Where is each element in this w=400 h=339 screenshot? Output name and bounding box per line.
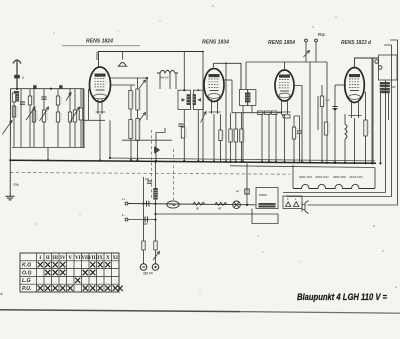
resistor R9 100k (129, 91, 132, 110)
wire v x241 (241, 113, 243, 129)
wire V1 anode right (110, 84, 135, 86)
electrolytic C11 (245, 189, 249, 194)
resistor coil L2 (56, 96, 59, 105)
wire v x203 (202, 52, 204, 162)
dashed vertical gang (173, 149, 175, 200)
wire v x236 (235, 113, 237, 129)
wire V4 grid (335, 84, 346, 86)
variable capacitor arrow C-tune (3, 121, 13, 135)
resistor R17 (240, 129, 243, 142)
wire v x246 (245, 62, 247, 89)
capacitor IF1 C6 (178, 123, 183, 125)
dashed gang vertical 2 (151, 130, 153, 199)
resistor IF1 R13 (181, 127, 184, 138)
wire v x70 (69, 89, 71, 148)
wire V1 grid right (110, 77, 147, 79)
resistor left R2 (12, 106, 15, 117)
junction x226 (225, 62, 227, 64)
IF transformer 2 primary loop (240, 90, 248, 106)
junction v2a (213, 160, 215, 162)
bus companion wire (110, 158, 375, 161)
wire V2 grid right (224, 79, 232, 81)
terminal L+ (125, 202, 128, 205)
wire drop plus (155, 162, 157, 264)
variable arrow p5 (139, 113, 146, 122)
svg-text:K.G: K.G (22, 263, 31, 269)
svg-text:MW LW: MW LW (160, 77, 169, 80)
variable arrow p4 (139, 80, 146, 89)
tuner box right edge (83, 89, 85, 148)
resistor R22 (292, 127, 295, 139)
svg-text:V: V (68, 256, 72, 261)
svg-text:2000Ω: 2000Ω (258, 193, 267, 197)
wire left down to ground (9, 89, 11, 196)
IF1 secondary trimmer (198, 98, 202, 102)
ground bus wire (10, 160, 376, 163)
svg-text:45: 45 (217, 207, 222, 211)
resistor R23 02M (320, 96, 323, 107)
heater chain resistor bumps (293, 184, 375, 188)
wire v x276 (275, 114, 277, 161)
wire grid row (232, 112, 281, 114)
svg-text:RENS 1854: RENS 1854 (333, 176, 347, 179)
resistor R21 (283, 115, 290, 118)
speaker terminal box (283, 196, 302, 209)
wire v x34 (33, 89, 35, 148)
speaker box (379, 55, 398, 80)
wire v x373 (372, 58, 374, 163)
resistor left R1 (12, 93, 15, 102)
resistor R12 (136, 119, 139, 141)
output transformer primary (380, 82, 390, 87)
junction v4e (364, 162, 366, 164)
tube V2 cathode legs (209, 99, 221, 114)
wire PU 2 (315, 42, 317, 62)
junction v3b (293, 161, 295, 163)
junction v1d (99, 159, 101, 161)
choke box (256, 188, 278, 209)
terminal L- (125, 218, 128, 221)
output transformer secondary (380, 88, 390, 93)
wire wrap 2 (286, 45, 392, 197)
capacitor C13 (147, 180, 152, 182)
wire v x75 (74, 89, 76, 148)
wire wrap 3 (308, 40, 398, 205)
choke winding (259, 203, 276, 208)
terminal P.U. 1 (305, 39, 308, 42)
wire trimmer stub (122, 52, 124, 60)
dashed gang line (10, 173, 290, 175)
IF2 secondary winding (247, 93, 250, 103)
wire L+ row (128, 204, 256, 205)
svg-text:VIII: VIII (88, 256, 98, 261)
wire antenna top (11, 88, 85, 90)
svg-text:RENS 1854: RENS 1854 (268, 40, 295, 46)
junction if2a (242, 161, 244, 163)
wire diode drop (156, 128, 165, 161)
wire V4 top (355, 58, 379, 68)
resistor left R8 (79, 108, 82, 120)
junction v1b (130, 159, 132, 161)
junction v4a (321, 161, 323, 163)
heater supply wire (230, 166, 375, 168)
capacitor left C3 (41, 96, 46, 98)
junction if1b (197, 160, 199, 162)
wire PU 1 (305, 42, 307, 62)
speaker triangles (286, 202, 299, 207)
svg-text:Blaupunkt 4 LGH 110 V =: Blaupunkt 4 LGH 110 V = (297, 292, 387, 302)
wire left mid (12, 147, 85, 149)
fuse plus (154, 241, 157, 250)
capacitor C10 series (146, 201, 148, 207)
junction g3 (275, 161, 277, 163)
svg-text:L.G: L.G (22, 278, 31, 284)
svg-text:X: X (106, 256, 110, 261)
junction a2 (50, 88, 52, 90)
capacitor C8 (297, 130, 302, 132)
coil choke L4 (345, 124, 347, 139)
svg-text:RENS 1824: RENS 1824 (299, 176, 313, 179)
wire v x269 (268, 114, 270, 161)
junction p0 (154, 161, 156, 163)
junction r17 (240, 161, 242, 163)
junction r16 (235, 161, 237, 163)
svg-text:IV: IV (60, 256, 66, 261)
wire v x294 (293, 116, 295, 127)
svg-text:600: 600 (392, 86, 397, 89)
resistor R20 (272, 111, 278, 114)
junction a1 (16, 88, 18, 90)
variable arrow p2 (40, 107, 49, 121)
terminal speaker 2 (378, 66, 382, 70)
bottom rule line (0, 310, 240, 312)
capacitor left C2 (20, 101, 25, 103)
trimmer cap block 1 (33, 85, 36, 88)
wire v x230 (230, 113, 232, 129)
tube V4 RENS 1823 d (345, 68, 365, 103)
svg-text:P.U.: P.U. (318, 32, 326, 37)
wire v x30 (29, 89, 31, 148)
wire IF1 top feed (183, 52, 185, 91)
wire V2 cathode to bus (213, 114, 215, 161)
junction v4c (344, 162, 346, 164)
wire v x14 (13, 102, 15, 148)
wire V3 top (284, 62, 286, 70)
wire v x299 (299, 116, 301, 131)
wire V1 cathode to bus (99, 114, 101, 161)
wire V2 top (214, 63, 242, 89)
svg-text:RENS 1824: RENS 1824 (86, 39, 113, 45)
resistor left R5 (56, 112, 59, 122)
capacitor C9 (332, 106, 337, 108)
wire v x327 (326, 62, 328, 163)
wire V4 cathode to bus (354, 118, 356, 163)
wire elko drop (246, 163, 248, 205)
svg-text:0,2: 0,2 (326, 98, 330, 102)
resistor left R6 (68, 112, 71, 122)
table X marks (38, 262, 123, 291)
wire v x81 (80, 89, 82, 148)
tuner coil dark (14, 91, 19, 102)
junction v4d (353, 162, 355, 164)
junction x373 (372, 162, 374, 164)
junction left bus (9, 159, 11, 161)
wire IF1 pri bottom (183, 110, 185, 162)
wire v x318 (317, 96, 319, 130)
junction v4f (371, 162, 373, 164)
resistor R14 (219, 130, 222, 141)
resistor zigzag R27 (215, 202, 227, 205)
junction v1e (155, 160, 157, 162)
resistor left R7 (73, 110, 76, 122)
IF1 primary trimmer (182, 98, 186, 102)
diode detector D1 (155, 147, 159, 153)
wire V3 cathode to bus (284, 114, 286, 162)
junction v3a (283, 161, 285, 163)
svg-text:II: II (46, 256, 50, 261)
resistor R19 (265, 111, 271, 114)
wire IF1 sec bottom (197, 110, 199, 162)
resistor R24 (324, 122, 327, 135)
junction pu1 (326, 162, 328, 164)
resistor R18 (258, 111, 264, 114)
svg-text:IX: IX (97, 256, 103, 261)
resistor R15 (229, 129, 232, 142)
IF transformer 1 secondary loop (193, 90, 203, 109)
wire top segment (62, 45, 140, 47)
resistor left R4 (42, 110, 45, 122)
resistor R10 150k (136, 89, 139, 110)
tube V3 RENS 1854 (275, 70, 294, 101)
wire v x21 (20, 89, 22, 148)
switch mains (153, 252, 160, 261)
wire PU box (246, 61, 327, 63)
svg-text:I: I (39, 256, 41, 261)
wire v x110 (109, 120, 111, 158)
svg-text:220µ: 220µ (12, 183, 19, 187)
tube V1 cathode legs (96, 99, 106, 114)
wire v x310 (309, 62, 311, 162)
svg-text:VI: VI (75, 256, 81, 261)
scan speckles (212, 5, 214, 7)
terminal speaker 1 (375, 60, 379, 64)
wire v x262 (261, 114, 263, 161)
wire mid horizontal (122, 139, 172, 141)
junction v1a (146, 77, 148, 79)
junction p2 (154, 218, 156, 220)
meter fuse oval (167, 201, 179, 208)
terminal P.U. 2 (315, 39, 318, 42)
svg-text:P.U.: P.U. (22, 286, 31, 292)
wire v x170 (169, 73, 171, 89)
svg-text:110 V=: 110 V= (143, 272, 153, 276)
IF1 primary winding (187, 94, 191, 105)
lamp (233, 201, 241, 209)
wire IF2 bottoms (243, 106, 252, 162)
wire v x83 down (82, 89, 84, 148)
junction tr1 (379, 162, 381, 164)
switch S1 (66, 93, 71, 101)
junction t2bus (202, 160, 204, 162)
pot arrow V2 (201, 112, 207, 123)
wire choke (344, 114, 346, 124)
wire V3 anode (294, 86, 302, 162)
wire v x131 (130, 85, 132, 91)
junction b2 (154, 203, 156, 205)
wire v x226 (225, 63, 227, 161)
tube V4 cathode legs (349, 100, 362, 118)
wire v x58 (57, 89, 59, 148)
switch PU (304, 51, 310, 58)
svg-text:RENS 1823: RENS 1823 (350, 177, 364, 179)
junction a3 (47, 159, 49, 161)
heater box right (374, 168, 376, 189)
resistor left R3 (32, 110, 35, 122)
ground symbol (6, 196, 15, 200)
wire v x365 (365, 92, 367, 120)
junction c41 (309, 161, 311, 163)
IF transformer 2 secondary loop (248, 90, 256, 106)
junction if1t (183, 89, 185, 91)
variable arrow p3 (71, 107, 80, 121)
wire v x97 (96, 52, 98, 61)
variable arrow p1 (26, 107, 35, 120)
junction if1a (183, 160, 185, 162)
antenna (13, 60, 21, 90)
junction v1c (136, 159, 138, 161)
coil bumps L3 (157, 70, 178, 73)
wire v x335 (334, 85, 336, 107)
svg-text:50: 50 (196, 207, 200, 211)
wire left block to bus (47, 148, 49, 161)
wire v x137 (137, 78, 139, 89)
wire v x220 (220, 114, 222, 130)
junction g2 (268, 161, 270, 163)
resistor coil L1 (28, 96, 31, 105)
phone jack (302, 201, 309, 214)
wire drop minus (143, 177, 145, 264)
wire L- row (128, 219, 156, 221)
transformer leads (381, 93, 389, 163)
svg-text:RENS 1834: RENS 1834 (202, 40, 229, 46)
svg-text:O.G: O.G (22, 270, 32, 276)
resistor R11 (129, 120, 132, 139)
trimmer dome T1 (118, 63, 128, 67)
junction r15 (229, 161, 231, 163)
wire v x232 (231, 80, 233, 113)
wire wrap 1 (283, 81, 386, 193)
heater box left (292, 165, 294, 188)
wire V1 top (99, 52, 204, 68)
wire v x160 (159, 73, 161, 89)
svg-text:RENS 1834: RENS 1834 (316, 176, 330, 179)
wire V4 anode (364, 91, 366, 93)
tube V3 cathode legs (279, 99, 291, 114)
svg-text:L+: L+ (122, 197, 126, 201)
svg-text:L–: L– (122, 213, 126, 217)
junction x110 (109, 157, 111, 159)
waveband table grid (20, 253, 119, 292)
resistor zigzag R26 (193, 202, 205, 205)
IF transformer 1 primary loop (178, 90, 191, 109)
wire v x322 (321, 85, 323, 96)
capacitor antenna series (14, 75, 20, 79)
junction p1 (154, 213, 156, 215)
wire v x176 (175, 73, 177, 89)
capacitor C12 series (144, 217, 146, 223)
resistor R16 (234, 129, 237, 142)
wire v x372 (371, 58, 373, 163)
wire row2 (156, 209, 279, 224)
wire v x44 (43, 89, 45, 148)
tube V1 RENS 1824 (90, 67, 111, 102)
junction b3 (246, 204, 248, 206)
terminal minus (140, 264, 147, 271)
mains choke (153, 188, 157, 200)
junction g1 (261, 161, 263, 163)
trimmer cap block 2 (59, 85, 62, 88)
svg-text:RENS 1823 d: RENS 1823 d (341, 40, 372, 46)
svg-text:100: 100 (145, 178, 150, 181)
IF2 primary winding (245, 93, 248, 103)
terminal plus (152, 264, 159, 271)
wire link left-tube1 (83, 119, 105, 121)
svg-text:1µ: 1µ (236, 189, 239, 193)
svg-text:III: III (52, 256, 58, 261)
resistor R25 (364, 120, 367, 136)
junction t2top (202, 51, 204, 53)
svg-text:XI: XI (112, 256, 118, 261)
junction v4b (334, 161, 337, 164)
wire r21 link (281, 113, 283, 117)
junction b1 (142, 203, 144, 205)
tube V2 RENS 1834 (204, 69, 224, 102)
IF1 secondary winding (193, 94, 196, 105)
fuse minus (142, 241, 145, 250)
wire v x147 (146, 78, 148, 120)
wire v x88 (88, 89, 90, 120)
